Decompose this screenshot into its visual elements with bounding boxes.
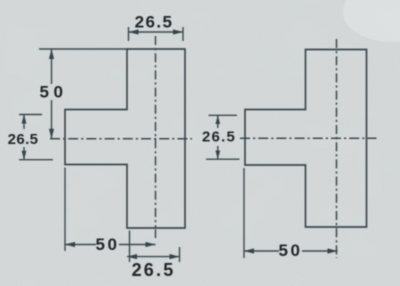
svg-text:26.5: 26.5 — [8, 131, 39, 148]
dim 50 bottom-left: extension line — [64, 168, 66, 252]
right view: tee body outline — [245, 50, 367, 228]
left view: horizontal centerline — [50, 138, 192, 140]
dim 50 bottom-right: extension line — [243, 168, 245, 258]
svg-text:50: 50 — [96, 235, 120, 254]
right view: vertical centerline — [336, 39, 338, 258]
dim 26.5 bottom: extension ticks — [130, 231, 180, 263]
svg-text:26.5: 26.5 — [132, 260, 176, 280]
dim 50 upper-left: arrowheads — [49, 49, 54, 139]
svg-text:26.5: 26.5 — [202, 129, 236, 146]
dim 50 bottom-right: dimension line — [244, 250, 338, 252]
dim 26.5 bottom: dimension line — [127, 256, 180, 258]
dim 26.5 right view: dimension line — [217, 115, 219, 159]
dim 50 upper-left: dimension line — [51, 49, 53, 139]
dim 26.5 bottom: arrowheads — [127, 254, 180, 259]
dim 26.5 mid-left: extension lines — [19, 115, 53, 160]
light paper cloud top-right — [343, 0, 400, 42]
dim 26.5 right view: arrowheads — [215, 115, 220, 159]
dim 26.5 mid-left: dimension line — [23, 115, 25, 160]
dim 50 upper-left: extension line — [39, 48, 127, 50]
left view: vertical centerline — [155, 36, 157, 228]
right view: horizontal centerline — [240, 137, 377, 139]
dim 26.5 top: extension ticks — [129, 27, 184, 41]
dim 50 bottom-left: dimension line — [65, 244, 156, 246]
svg-text:26.5: 26.5 — [135, 12, 174, 31]
dim 50 bottom-right: arrowheads — [244, 248, 338, 253]
dim 26.5 top: dimension line — [129, 31, 184, 33]
left view: vertical centerline lower stub — [155, 230, 157, 239]
dim 50 bottom-left: arrowheads — [65, 242, 156, 247]
dim 26.5 top: arrowheads — [129, 29, 184, 34]
svg-text:50: 50 — [40, 83, 68, 102]
dim 26.5 mid-left: arrowheads — [22, 115, 27, 160]
dim 26.5 right view: extension lines — [206, 115, 240, 159]
left view: tee body outline — [65, 49, 185, 228]
svg-text:50: 50 — [279, 241, 303, 260]
